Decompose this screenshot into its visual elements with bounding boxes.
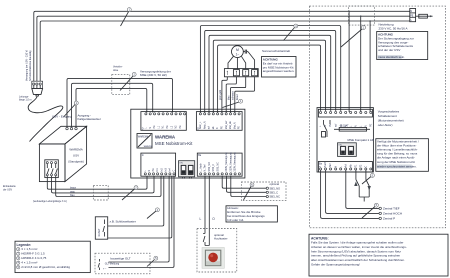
switch taster HOCH <box>356 170 369 197</box>
wire ring N <box>205 30 336 112</box>
svg-text:H05RR-F 4 G 0,75: H05RR-F 4 G 0,75 <box>21 256 46 260</box>
wire MSE supply PE <box>76 88 147 127</box>
key switch box z.B. Schluesseltaster <box>95 217 107 239</box>
wire SB3_NO <box>222 176 266 188</box>
svg-text:1~: 1~ <box>236 53 240 57</box>
terminal block N PE L <box>410 9 416 22</box>
wire mains drop N <box>360 16 362 112</box>
USV unit 3D box <box>39 126 86 144</box>
svg-text:N: N <box>354 125 357 127</box>
wire switch common <box>363 197 365 202</box>
cable marker 5 (Zentral lines) <box>362 207 375 219</box>
node Zentral HOCH <box>379 212 381 214</box>
svg-text:L_Hoch: L_Hoch <box>199 163 202 172</box>
svg-text:allen Anschlussklemmen einschl: allen Anschlussklemmen einschließlich de… <box>311 258 405 262</box>
node Zentral P <box>379 217 381 219</box>
cable marker 1 (Kaltgeraetestecker lead) <box>64 105 75 117</box>
svg-text:länge 1,0 m: länge 1,0 m <box>19 99 32 102</box>
wire key switch bottom <box>108 176 172 238</box>
svg-text:Arbeiten an diesem verrichten: Arbeiten an diesem verrichten wollen, im… <box>311 245 407 249</box>
svg-text:der USV: der USV <box>3 188 12 191</box>
note box Verfuegt die Motorsteuereinheit <box>376 139 429 172</box>
svg-text:3 × 1,5 mm²: 3 × 1,5 mm² <box>21 247 37 251</box>
wire Hochtaster L <box>204 176 206 233</box>
svg-text:angeschlossen werden.: angeschlossen werden. <box>263 69 295 73</box>
svg-text:ON: ON <box>179 163 183 165</box>
wire mains drop PE <box>369 21 371 112</box>
svg-text:USV - Eingang: USV - Eingang <box>52 115 72 119</box>
wire flexible cord plug to USV <box>28 96 63 142</box>
svg-text:dose: dose <box>113 69 119 72</box>
svg-text:(werkseitige Leitungslänge 3 m: (werkseitige Leitungslänge 3 m) <box>33 200 67 203</box>
svg-text:SB3_NC: SB3_NC <box>217 162 220 172</box>
svg-text:RESET: RESET <box>98 228 101 237</box>
svg-text:sung der MSE Nobistrom-Kit: sung der MSE Nobistrom-Kit <box>377 160 415 164</box>
legend box <box>15 241 90 272</box>
motor plug terminal block <box>224 69 258 77</box>
svg-text:WAREMA: WAREMA <box>155 135 176 140</box>
svg-text:Tief: Tief <box>329 163 332 167</box>
note box Hinweis Bruecke <box>226 206 277 222</box>
svg-text:MSE Kompakt 1 AP: MSE Kompakt 1 AP <box>348 138 374 142</box>
svg-text:Mot_ab: Mot_ab <box>229 121 232 130</box>
svg-text:blau: blau <box>70 194 75 197</box>
svg-text:GLT-Meldung: GLT-Meldung <box>105 263 120 266</box>
wire MSE supply L <box>67 78 173 127</box>
cable marker 2 (USV supply) <box>122 189 135 200</box>
terminal strip X3 (inputs) <box>141 153 176 176</box>
wire Hochtaster O <box>208 176 210 245</box>
motor M1 circle <box>232 46 244 58</box>
wire mains N top run <box>37 16 410 83</box>
svg-text:PE: PE <box>238 126 241 130</box>
switch pushbutton symbol <box>203 234 209 246</box>
cable marker 5 (GLT line) <box>147 260 155 267</box>
wire ring L <box>200 26 340 113</box>
terminal strip K-top <box>318 109 372 117</box>
cable marker 4 (interconnect) <box>284 28 295 41</box>
svg-text:N_Tief: N_Tief <box>204 164 207 171</box>
junction box Verteilerdose 2 <box>93 185 108 200</box>
svg-text:blau: blau <box>227 95 230 100</box>
svg-text:Gefahr der Spannungsrückspeisu: Gefahr der Spannungsrückspeisung! <box>311 262 360 266</box>
svg-text:Zentral TIEF: Zentral TIEF <box>383 207 400 211</box>
cable marker 5 (SB3) <box>244 187 252 201</box>
DIP switch S2 <box>338 143 357 157</box>
dashed box optional SB3 <box>241 182 286 201</box>
wire USV L (braun) <box>47 176 147 189</box>
svg-text:Mot_auf: Mot_auf <box>225 120 228 129</box>
svg-text:MSE Nobistrom-Kit: MSE Nobistrom-Kit <box>155 141 193 146</box>
svg-text:Legende:: Legende: <box>17 243 32 247</box>
dashed box optional Hochtaster <box>197 229 237 273</box>
svg-text:Netz_L: Netz_L <box>199 121 202 129</box>
wire SB3_NC <box>231 176 266 196</box>
svg-text:Mot_N: Mot_N <box>233 122 236 129</box>
svg-text:Auf: Auf <box>344 164 347 168</box>
svg-text:PE: PE <box>152 168 155 172</box>
wire ring ab <box>218 45 321 112</box>
cable marker 5 (taster) <box>362 177 371 185</box>
node Zentral TIEF <box>379 207 381 209</box>
svg-text:H05RR-F 3 G 1,5: H05RR-F 3 G 1,5 <box>21 252 45 256</box>
svg-text:WAREMA: WAREMA <box>138 135 149 138</box>
svg-text:Hoch: Hoch <box>324 161 327 167</box>
svg-text:PE: PE <box>166 125 169 129</box>
note box ACHTUNG fuse <box>377 32 428 60</box>
wire motor ab to strip <box>235 77 255 113</box>
dashed enclosure Schaltelement <box>310 6 446 228</box>
svg-text:N: N <box>364 125 367 127</box>
svg-text:muss identisch sein.: muss identisch sein. <box>378 55 405 59</box>
cable marker 1 (mains) <box>341 29 362 47</box>
wire Zentral TIEF <box>346 170 379 208</box>
svg-text:Vorgeschaltetes: Vorgeschaltetes <box>378 110 400 114</box>
cable marker 1 (Netzleitung to USV) <box>121 12 129 27</box>
terminal strip X2 (drive out) <box>196 112 242 131</box>
svg-text:C: C <box>364 166 367 168</box>
node SB3_C <box>266 191 268 193</box>
svg-text:Zentral P: Zentral P <box>383 217 395 221</box>
svg-text:braun: braun <box>236 93 239 100</box>
svg-text:braun: braun <box>70 187 77 190</box>
svg-text:N: N <box>216 127 219 129</box>
svg-text:auf: auf <box>334 123 337 127</box>
MSE Kompakt 1 AP box <box>317 108 373 172</box>
svg-text:N: N <box>149 127 152 129</box>
wire GLT 1 <box>109 176 170 262</box>
svg-text:SB3_NC: SB3_NC <box>270 195 281 199</box>
connector USV mains plug <box>32 81 43 88</box>
cable marker 4 (key switch line) <box>147 211 156 219</box>
svg-text:N: N <box>334 166 337 168</box>
cable marker 2 (MSE supply line) <box>120 76 133 91</box>
svg-text:Schaltelement: Schaltelement <box>378 114 397 118</box>
note box ACHTUNG bottom <box>309 234 448 276</box>
node SB3_NO <box>266 187 268 189</box>
svg-text:wieder synchronisiert werden.: wieder synchronisiert werden. <box>377 165 417 169</box>
red pushbutton image <box>202 248 224 269</box>
wire USV PE (blau) <box>56 176 161 197</box>
svg-text:230V_Versorgung: 230V_Versorgung <box>225 152 228 172</box>
svg-text:grün-gelb: grün-gelb <box>219 89 222 100</box>
svg-text:trennen, anschließend Prüfung: trennen, anschließend Prüfung auf gefähr… <box>311 254 401 258</box>
svg-text:Sonnenschutzantrieb: Sonnenschutzantrieb <box>262 49 291 53</box>
svg-text:D: D <box>197 128 199 131</box>
wire SB3_C <box>227 176 267 192</box>
wire Zentral P <box>321 170 379 218</box>
svg-text:C: C <box>173 170 176 172</box>
svg-text:N: N <box>410 10 412 13</box>
wire mains drop L <box>348 11 350 112</box>
junction box Verteilerdose 1 <box>112 75 130 95</box>
svg-text:Zentral HOCH: Zentral HOCH <box>383 212 402 216</box>
relay K1 <box>324 120 331 137</box>
svg-text:z.B. Schlüsseltaster: z.B. Schlüsseltaster <box>110 219 136 223</box>
note box ACHTUNG motor <box>262 57 297 78</box>
svg-text:L: L <box>200 217 202 221</box>
svg-text:SB3_C: SB3_C <box>212 164 215 172</box>
wire motor leads <box>228 52 255 69</box>
wire mains L top run <box>34 11 410 83</box>
connector USV output socket <box>66 127 68 129</box>
wire motor auf to strip <box>231 77 246 113</box>
svg-text:+ −: + − <box>103 267 107 270</box>
wire ring PE <box>209 35 331 112</box>
svg-text:MSE (230 V, 50 HZ): MSE (230 V, 50 HZ) <box>140 73 167 77</box>
svg-text:D: D <box>142 128 144 131</box>
svg-text:PE: PE <box>369 123 372 127</box>
svg-text:PE: PE <box>179 125 182 129</box>
svg-text:SB3_NO: SB3_NO <box>208 162 211 172</box>
svg-text:Netz_N: Netz_N <box>203 121 206 129</box>
svg-text:bauseitige GLT: bauseitige GLT <box>111 257 131 261</box>
MSE Nobistrom-Kit main box <box>131 109 245 178</box>
svg-text:und der der USV: und der der USV <box>378 48 400 52</box>
svg-text:USV: USV <box>73 154 79 158</box>
cable marker 1 (motor lead) <box>223 102 240 108</box>
svg-text:optional: optional <box>270 182 280 186</box>
wire USV N (grau) <box>52 176 155 193</box>
wire key switch top <box>108 176 164 226</box>
svg-text:M: M <box>236 48 239 52</box>
svg-text:grau: grau <box>70 190 75 193</box>
switch GLT contact <box>98 259 99 270</box>
svg-text:(Motorsteuereinheit: (Motorsteuereinheit <box>378 118 404 122</box>
svg-text:SB3_C: SB3_C <box>270 190 279 194</box>
svg-text:Hochtaster: Hochtaster <box>214 237 228 241</box>
svg-text:In3 oder In4.: In3 oder In4. <box>227 218 244 222</box>
svg-text:WAREMA: WAREMA <box>69 148 82 152</box>
svg-text:4 × 1,5 mm²: 4 × 1,5 mm² <box>21 261 37 265</box>
wire MSE supply N <box>72 83 153 127</box>
capacitor on motor <box>243 51 245 53</box>
svg-text:auf: auf <box>208 126 211 130</box>
svg-text:230V_Versorgung: 230V_Versorgung <box>234 152 237 172</box>
svg-text:230V_Versorgung: 230V_Versorgung <box>229 152 232 172</box>
switch taster TIEF <box>366 170 369 197</box>
svg-text:PE: PE <box>153 125 156 129</box>
terminal strip X4 (SB3 / aux) <box>197 153 242 176</box>
svg-text:warema: warema <box>144 145 153 148</box>
terminal strip K-bottom <box>318 162 372 173</box>
svg-text:230 V AC, 50 Hz/16 A: 230 V AC, 50 Hz/16 A <box>379 26 408 30</box>
svg-text:Schutzkontaktdose bauseitig: Schutzkontaktdose bauseitig <box>29 50 32 81</box>
junction dashed box <box>349 6 375 25</box>
WAREMA logo <box>137 134 152 149</box>
svg-text:PE: PE <box>410 14 414 17</box>
wire Zentral HOCH <box>326 170 379 213</box>
fuse F1 <box>416 15 419 17</box>
svg-text:oder Aktor): oder Aktor) <box>378 123 393 127</box>
svg-text:schwarz: schwarz <box>232 90 235 100</box>
node SB3_NC <box>266 195 268 197</box>
wire mains PE top run <box>40 21 410 84</box>
svg-text:(Standgerät): (Standgerät) <box>68 160 84 164</box>
terminal strip X1 (supply in) <box>141 112 186 131</box>
dashed box bauseitige GLT <box>95 253 150 274</box>
svg-text:SB3_NO: SB3_NO <box>270 186 281 190</box>
svg-text:N: N <box>148 170 151 172</box>
wire motor N to strip <box>226 77 236 113</box>
DIP switch S1 <box>179 161 195 177</box>
USV internal terminal block <box>45 160 59 178</box>
svg-text:Kaltgerätestecker: Kaltgerätestecker <box>78 117 101 121</box>
wire ring auf <box>213 40 325 112</box>
svg-text:PE: PE <box>221 126 224 130</box>
wire motor PE to strip <box>222 77 227 113</box>
wire GLT 2 <box>109 176 175 267</box>
svg-text:2×2×0,8 mm Ø geschirmt, eindrä: 2×2×0,8 mm Ø geschirmt, eindrähtig <box>21 265 70 269</box>
